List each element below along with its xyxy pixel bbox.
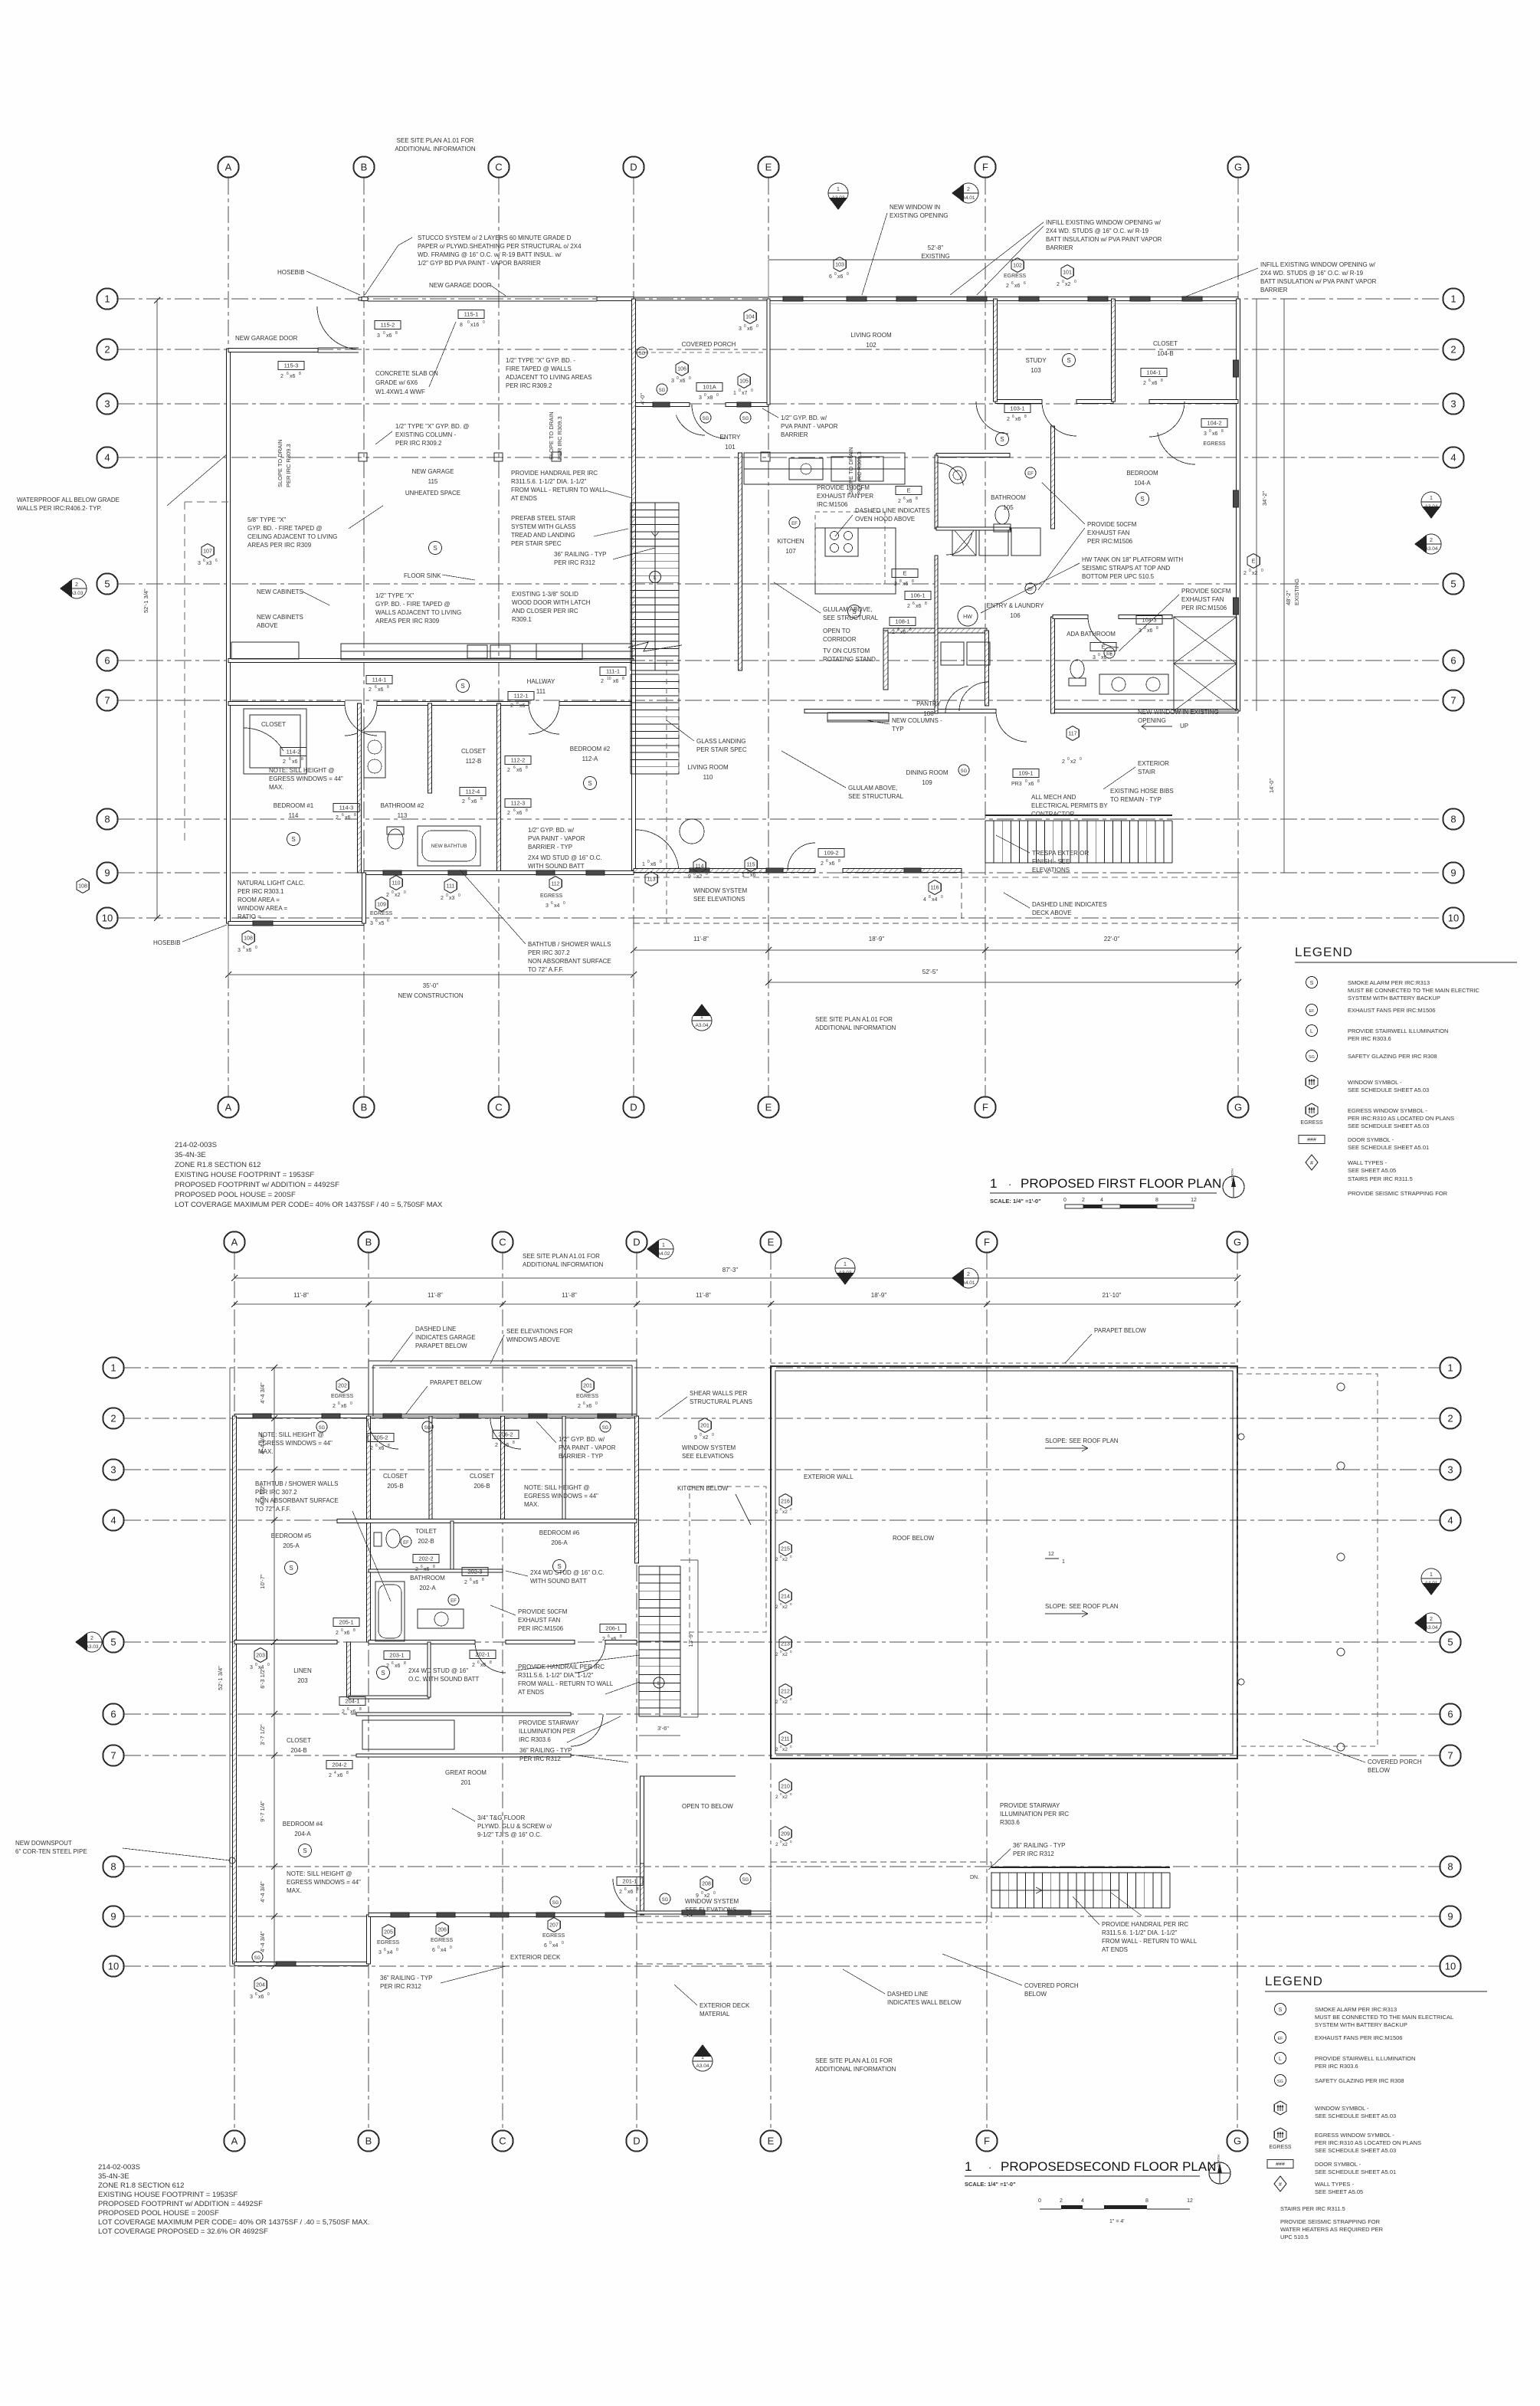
svg-text:35-4N-3E: 35-4N-3E bbox=[98, 2172, 129, 2181]
svg-text:A: A bbox=[231, 2136, 238, 2147]
FF boxed tags interior bbox=[366, 676, 392, 684]
svg-text:10: 10 bbox=[1445, 1961, 1456, 1972]
svg-text:EF: EF bbox=[1027, 472, 1034, 477]
svg-text:6: 6 bbox=[903, 497, 906, 501]
svg-text:LINEN: LINEN bbox=[293, 1667, 312, 1674]
svg-text:MAX.: MAX. bbox=[269, 784, 284, 791]
svg-text:SEE SCHEDULE SHEET A5.03: SEE SCHEDULE SHEET A5.03 bbox=[1315, 2113, 1396, 2119]
svg-text:1: 1 bbox=[1450, 293, 1456, 305]
svg-text:E: E bbox=[765, 1102, 772, 1113]
svg-text:ADJACENT TO LIVING AREAS: ADJACENT TO LIVING AREAS bbox=[506, 374, 591, 381]
svg-text:EGRESS: EGRESS bbox=[377, 1940, 400, 1945]
svg-text:4'-4 3/4": 4'-4 3/4" bbox=[259, 1382, 266, 1404]
svg-text:0: 0 bbox=[712, 1433, 714, 1437]
svg-text:PER STAIR SPEC: PER STAIR SPEC bbox=[696, 746, 747, 753]
svg-text:8: 8 bbox=[526, 808, 528, 813]
svg-text:S: S bbox=[381, 1670, 385, 1677]
svg-text:1: 1 bbox=[965, 2159, 972, 2174]
svg-text:x6: x6 bbox=[341, 1404, 347, 1409]
svg-text:INDICATES WALL BELOW: INDICATES WALL BELOW bbox=[887, 1999, 962, 2006]
svg-text:112: 112 bbox=[551, 882, 559, 887]
svg-text:0: 0 bbox=[941, 895, 943, 900]
svg-text:EXISTING 1-3/8" SOLID: EXISTING 1-3/8" SOLID bbox=[512, 591, 578, 598]
svg-text:2X4 WD. STUDS @ 16" O.C.: 2X4 WD. STUDS @ 16" O.C. w/ R-19 bbox=[1260, 270, 1364, 277]
svg-text:3: 3 bbox=[699, 395, 702, 401]
svg-text:6: 6 bbox=[1148, 379, 1151, 383]
svg-text:6: 6 bbox=[1450, 655, 1456, 667]
FF bedroom104A west wall bbox=[1051, 426, 1055, 529]
svg-text:214-02-003S: 214-02-003S bbox=[98, 2163, 140, 2172]
svg-text:6: 6 bbox=[215, 559, 218, 563]
svg-text:EGRESS: EGRESS bbox=[370, 911, 393, 916]
SF bottom wall bedroom4 bbox=[234, 1962, 369, 1966]
FF markers right bbox=[1421, 492, 1441, 512]
svg-text:2: 2 bbox=[967, 187, 970, 192]
svg-text:2: 2 bbox=[333, 1404, 336, 1409]
svg-text:x6: x6 bbox=[516, 811, 523, 816]
svg-text:3: 3 bbox=[1447, 1464, 1453, 1476]
svg-text:8: 8 bbox=[387, 685, 389, 690]
svg-text:PVA PAINT - VAPOR: PVA PAINT - VAPOR bbox=[528, 835, 585, 842]
FF E hex right bbox=[1247, 554, 1260, 569]
FF A3.04 triangle marker bbox=[692, 1011, 712, 1031]
SF north arrow bbox=[1209, 2162, 1230, 2184]
svg-text:SLOPE: SEE ROOF PLAN: SLOPE: SEE ROOF PLAN bbox=[1045, 1437, 1119, 1444]
svg-text:0: 0 bbox=[759, 870, 762, 875]
svg-text:INFILL EXISTING WINDOW OPEN: INFILL EXISTING WINDOW OPENING w/ bbox=[1260, 261, 1376, 268]
svg-text:ADDITIONAL INFORMATION: ADDITIONAL INFORMATION bbox=[815, 2066, 896, 2073]
svg-text:2X4 WD STUD @ 16" O.C.: 2X4 WD STUD @ 16" O.C. bbox=[530, 1569, 605, 1576]
svg-text:B: B bbox=[365, 2136, 372, 2147]
svg-text:202-1: 202-1 bbox=[475, 1651, 490, 1658]
svg-text:2: 2 bbox=[283, 759, 286, 765]
svg-text:206-B: 206-B bbox=[473, 1483, 490, 1490]
svg-text:8: 8 bbox=[929, 895, 931, 900]
FF interior stair bbox=[631, 502, 679, 503]
svg-text:BATHROOM #2: BATHROOM #2 bbox=[381, 802, 424, 809]
svg-text:11'-8": 11'-8" bbox=[562, 1292, 577, 1299]
svg-text:6: 6 bbox=[913, 601, 915, 606]
FF egress tags bottom bbox=[375, 897, 388, 912]
svg-text:4: 4 bbox=[104, 452, 110, 464]
svg-text:LOT COVERAGE MAXIMUM PER CODE=: LOT COVERAGE MAXIMUM PER CODE= 40% OR 14… bbox=[98, 2218, 370, 2227]
svg-text:EXISTING HOSE BIBS: EXISTING HOSE BIBS bbox=[1110, 788, 1174, 795]
svg-text:STAIRS PER IRC R311.5: STAIRS PER IRC R311.5 bbox=[1280, 2205, 1345, 2212]
svg-text:BARRIER - TYP: BARRIER - TYP bbox=[528, 844, 572, 851]
svg-text:SEE SCHEDULE SHEET A5.03: SEE SCHEDULE SHEET A5.03 bbox=[1315, 2147, 1396, 2154]
svg-text:0: 0 bbox=[267, 1663, 270, 1667]
svg-text:2: 2 bbox=[386, 1664, 389, 1669]
svg-text:10: 10 bbox=[1448, 913, 1459, 924]
svg-text:PER IRC R312: PER IRC R312 bbox=[380, 1983, 421, 1990]
svg-text:2: 2 bbox=[1062, 759, 1065, 765]
svg-text:0: 0 bbox=[1080, 757, 1082, 762]
svg-text:SG: SG bbox=[742, 417, 749, 421]
svg-text:9-1/2" TJI'S @ 16" O.C.: 9-1/2" TJI'S @ 16" O.C. bbox=[477, 1831, 542, 1838]
svg-text:TOILET: TOILET bbox=[415, 1528, 437, 1535]
svg-text:109-2: 109-2 bbox=[824, 850, 838, 857]
svg-text:PLYWD. GLU & SCREW o/: PLYWD. GLU & SCREW o/ bbox=[477, 1823, 552, 1830]
svg-text:x2: x2 bbox=[782, 1509, 788, 1515]
svg-text:PANTRY: PANTRY bbox=[916, 700, 941, 707]
svg-text:2: 2 bbox=[898, 499, 901, 504]
svg-text:SEE SHEET A5.05: SEE SHEET A5.05 bbox=[1315, 2188, 1363, 2195]
svg-text:EF: EF bbox=[791, 522, 798, 526]
svg-text:4'-0": 4'-0" bbox=[639, 393, 646, 405]
svg-text:WINDOW SYMBOL -: WINDOW SYMBOL - bbox=[1315, 2105, 1369, 2112]
SF kitchen below dashed bbox=[690, 1487, 766, 1632]
svg-text:x2: x2 bbox=[782, 1700, 788, 1705]
svg-text:3: 3 bbox=[238, 948, 241, 953]
svg-text:SEE SCHEDULE SHEET A5.03: SEE SCHEDULE SHEET A5.03 bbox=[1348, 1087, 1429, 1093]
svg-text:9: 9 bbox=[1450, 867, 1456, 879]
svg-text:BEDROOM #6: BEDROOM #6 bbox=[539, 1529, 580, 1536]
svg-text:6: 6 bbox=[375, 919, 378, 923]
svg-text:FROM WALL - RETURN TO WALL: FROM WALL - RETURN TO WALL bbox=[511, 487, 607, 493]
svg-text:2: 2 bbox=[507, 811, 510, 816]
svg-text:WALLS PER IRC:R406.2- TYP.: WALLS PER IRC:R406.2- TYP. bbox=[17, 505, 102, 512]
FF north arrow bbox=[1223, 1176, 1244, 1198]
svg-text:2: 2 bbox=[462, 799, 465, 805]
svg-text:9: 9 bbox=[688, 874, 691, 880]
svg-text:FROM WALL - RETURN TO WAL: FROM WALL - RETURN TO WALL bbox=[1102, 1938, 1198, 1945]
svg-text:TO 72" A.F.F.: TO 72" A.F.F. bbox=[528, 966, 564, 973]
svg-text:2: 2 bbox=[578, 1404, 581, 1409]
svg-text:BEDROOM #4: BEDROOM #4 bbox=[283, 1821, 323, 1827]
svg-text:6: 6 bbox=[421, 1565, 423, 1569]
svg-text:E: E bbox=[768, 2136, 775, 2147]
svg-text:3: 3 bbox=[378, 1950, 382, 1955]
svg-text:GYP. BD. - FIRE TAPED @: GYP. BD. - FIRE TAPED @ bbox=[375, 601, 450, 608]
svg-text:115-3: 115-3 bbox=[284, 362, 299, 369]
svg-text:12: 12 bbox=[1191, 1198, 1197, 1203]
svg-text:PROPOSED FOOTPRINT w/ ADDITION: PROPOSED FOOTPRINT w/ ADDITION = 4492SF bbox=[175, 1181, 339, 1189]
svg-text:x6: x6 bbox=[906, 499, 913, 504]
svg-text:CLOSET: CLOSET bbox=[1153, 340, 1178, 347]
FF cabinet counters bbox=[231, 642, 299, 659]
svg-text:TREAD AND LANDING: TREAD AND LANDING bbox=[511, 532, 575, 539]
svg-text:ADDITIONAL INFORMATION: ADDITIONAL INFORMATION bbox=[395, 146, 476, 152]
SF wall at row9 D-E window bbox=[637, 1911, 771, 1914]
svg-text:CEILING ADJACENT TO LIVING: CEILING ADJACENT TO LIVING bbox=[247, 533, 337, 540]
svg-text:SEE SCHEDULE SHEET A5.01: SEE SCHEDULE SHEET A5.01 bbox=[1348, 1144, 1429, 1151]
svg-text:2: 2 bbox=[894, 582, 897, 587]
svg-text:UPC 510.5: UPC 510.5 bbox=[1280, 2234, 1309, 2240]
svg-text:AREAS PER IRC R309: AREAS PER IRC R309 bbox=[375, 618, 440, 624]
svg-text:0: 0 bbox=[693, 872, 696, 877]
FF stair lower flight dashes bbox=[631, 674, 679, 675]
svg-text:2: 2 bbox=[507, 768, 510, 773]
svg-text:RATIO =: RATIO = bbox=[238, 913, 261, 920]
svg-text:x6: x6 bbox=[480, 1663, 487, 1668]
svg-text:EF: EF bbox=[451, 1599, 457, 1604]
svg-text:6: 6 bbox=[477, 1660, 480, 1665]
svg-text:0: 0 bbox=[341, 1628, 343, 1633]
FF study west wall bbox=[994, 299, 998, 402]
svg-text:x4: x4 bbox=[932, 897, 938, 903]
svg-text:AT ENDS: AT ENDS bbox=[518, 1689, 544, 1696]
svg-text:SEE SHEET A5.05: SEE SHEET A5.05 bbox=[1348, 1167, 1396, 1174]
svg-text:O.C. WITH SOUND BATT: O.C. WITH SOUND BATT bbox=[408, 1676, 479, 1683]
svg-text:EGRESS WINDOW SYMBOL -: EGRESS WINDOW SYMBOL - bbox=[1315, 2132, 1394, 2139]
svg-text:0: 0 bbox=[1074, 280, 1076, 284]
svg-text:8: 8 bbox=[1155, 1198, 1158, 1203]
svg-text:8: 8 bbox=[1161, 379, 1163, 383]
svg-text:8: 8 bbox=[925, 601, 927, 606]
svg-text:206: 206 bbox=[437, 1928, 447, 1933]
svg-text:52'-8": 52'-8" bbox=[928, 244, 944, 251]
svg-text:LOT COVERAGE MAXIMUM PER CODE=: LOT COVERAGE MAXIMUM PER CODE= 40% OR 14… bbox=[175, 1201, 443, 1209]
svg-text:2: 2 bbox=[329, 1773, 332, 1778]
svg-text:E: E bbox=[765, 162, 772, 173]
svg-text:6" COR-TEN STEEL PIPE: 6" COR-TEN STEEL PIPE bbox=[15, 1848, 87, 1855]
svg-text:x4: x4 bbox=[387, 1950, 393, 1955]
svg-text:TO REMAIN - TYP: TO REMAIN - TYP bbox=[1110, 796, 1162, 803]
svg-text:205: 205 bbox=[384, 1930, 393, 1936]
svg-text:CONCRETE SLAB ON: CONCRETE SLAB ON bbox=[375, 370, 438, 377]
svg-text:6: 6 bbox=[826, 859, 828, 864]
svg-text:EXHAUST FAN: EXHAUST FAN bbox=[518, 1617, 561, 1624]
svg-text:INFILL EXISTING WINDOW OPEN: INFILL EXISTING WINDOW OPENING w/ bbox=[1046, 219, 1162, 226]
svg-text:D: D bbox=[633, 1237, 640, 1248]
svg-text:G: G bbox=[1234, 2136, 1241, 2147]
SF top wall A-D bbox=[234, 1414, 637, 1418]
svg-text:EGRESS: EGRESS bbox=[576, 1394, 599, 1399]
SF markers top bbox=[654, 1239, 673, 1259]
FF 106-1 108-1 bbox=[905, 592, 931, 600]
svg-text:87'-3": 87'-3" bbox=[722, 1267, 739, 1273]
svg-text:x6: x6 bbox=[1015, 417, 1021, 422]
svg-text:EGRESS: EGRESS bbox=[1004, 274, 1027, 279]
svg-text:ELECTRICAL PERMITS BY: ELECTRICAL PERMITS BY bbox=[1031, 802, 1108, 809]
svg-text:8: 8 bbox=[104, 814, 110, 825]
svg-text:ENTRY: ENTRY bbox=[720, 434, 742, 441]
svg-text:1: 1 bbox=[110, 1362, 116, 1374]
svg-text:211: 211 bbox=[781, 1737, 789, 1742]
svg-text:2: 2 bbox=[472, 1663, 475, 1668]
svg-text:EGRESS: EGRESS bbox=[540, 893, 563, 899]
svg-text:8: 8 bbox=[395, 331, 398, 336]
svg-text:EF: EF bbox=[1309, 1009, 1315, 1014]
svg-text:COVERED PORCH: COVERED PORCH bbox=[1024, 1982, 1079, 1989]
svg-text:SYSTEM WITH BATTERY BACKUP: SYSTEM WITH BATTERY BACKUP bbox=[1315, 2021, 1407, 2028]
svg-text:116: 116 bbox=[930, 886, 939, 891]
svg-text:x6: x6 bbox=[900, 630, 906, 635]
svg-text:8: 8 bbox=[433, 1565, 435, 1569]
svg-text:203-1: 203-1 bbox=[389, 1652, 404, 1659]
svg-text:48'-2": 48'-2" bbox=[1285, 591, 1292, 605]
svg-text:8: 8 bbox=[526, 765, 528, 770]
svg-text:SYSTEM WITH BATTERY BACKUP: SYSTEM WITH BATTERY BACKUP bbox=[1348, 995, 1440, 1001]
svg-text:0: 0 bbox=[834, 272, 837, 277]
svg-text:x4: x4 bbox=[554, 903, 560, 909]
svg-text:112-1: 112-1 bbox=[514, 693, 529, 700]
svg-text:1/2" GYP BD PVA PAINT - VAPOR: 1/2" GYP BD PVA PAINT - VAPOR BARRIER bbox=[418, 260, 541, 267]
SF 205-2 206-2 bbox=[368, 1434, 394, 1442]
svg-text:SEE SITE PLAN A1.01 FOR: SEE SITE PLAN A1.01 FOR bbox=[815, 1016, 893, 1023]
svg-text:x6: x6 bbox=[1014, 284, 1021, 289]
svg-text:108: 108 bbox=[244, 936, 253, 942]
svg-text:S: S bbox=[433, 545, 437, 552]
svg-text:BEDROOM: BEDROOM bbox=[1126, 470, 1158, 477]
svg-text:SEE ELEVATIONS: SEE ELEVATIONS bbox=[682, 1453, 733, 1460]
SF right wall D bbox=[635, 1416, 639, 1563]
svg-text:203: 203 bbox=[256, 1654, 265, 1659]
svg-text:7: 7 bbox=[104, 695, 110, 706]
svg-text:ADDITIONAL INFORMATION: ADDITIONAL INFORMATION bbox=[815, 1024, 896, 1031]
svg-text:#: # bbox=[1310, 1161, 1313, 1166]
svg-text:x6: x6 bbox=[750, 873, 756, 878]
svg-text:6: 6 bbox=[384, 1948, 386, 1952]
svg-text:213: 213 bbox=[781, 1642, 790, 1647]
FF stair break line bbox=[628, 642, 682, 651]
FF extra door arcs right wing bbox=[976, 402, 1008, 434]
svg-text:EGRESS: EGRESS bbox=[1203, 441, 1226, 447]
svg-text:113: 113 bbox=[398, 812, 408, 819]
svg-text:NEW DOWNSPOUT: NEW DOWNSPOUT bbox=[15, 1840, 72, 1847]
svg-text:1: 1 bbox=[742, 873, 745, 878]
FF garage top-left jog wall bbox=[228, 349, 318, 352]
svg-text:ENTRY & LAUNDRY: ENTRY & LAUNDRY bbox=[987, 602, 1044, 609]
svg-text:S: S bbox=[291, 836, 295, 843]
FF scale bar bbox=[1065, 1205, 1083, 1208]
svg-text:A4.02: A4.02 bbox=[657, 1251, 670, 1257]
svg-text:SYSTEM WITH GLASS: SYSTEM WITH GLASS bbox=[511, 523, 575, 530]
svg-text:104-B: 104-B bbox=[1157, 350, 1173, 357]
svg-text:BEDROOM #1: BEDROOM #1 bbox=[274, 802, 314, 809]
svg-text:2: 2 bbox=[495, 1443, 498, 1448]
svg-text:x4: x4 bbox=[552, 1943, 559, 1949]
svg-text:1/2" TYPE "X" GYP. BD. @: 1/2" TYPE "X" GYP. BD. @ bbox=[395, 423, 469, 430]
svg-text:x8: x8 bbox=[707, 395, 713, 401]
svg-text:SEE ELEVATIONS: SEE ELEVATIONS bbox=[693, 896, 745, 903]
svg-text:112-2: 112-2 bbox=[511, 757, 526, 764]
svg-text:106: 106 bbox=[677, 367, 686, 372]
svg-text:36" RAILING - TYP: 36" RAILING - TYP bbox=[554, 551, 607, 558]
FF bottom-left wall row10 bbox=[228, 922, 364, 926]
svg-text:8: 8 bbox=[513, 1441, 515, 1445]
svg-text:8: 8 bbox=[301, 757, 303, 762]
svg-text:NOTE: SILL HEIGHT @: NOTE: SILL HEIGHT @ bbox=[258, 1431, 323, 1438]
svg-text:INDICATES GARAGE: INDICATES GARAGE bbox=[415, 1334, 476, 1341]
svg-text:x6: x6 bbox=[586, 1404, 592, 1409]
svg-text:0: 0 bbox=[458, 893, 460, 898]
FF existing top wall E-G with infill windows bbox=[768, 297, 1238, 301]
svg-text:36" RAILING - TYP: 36" RAILING - TYP bbox=[519, 1747, 572, 1754]
svg-text:6: 6 bbox=[544, 1943, 547, 1949]
svg-text:6: 6 bbox=[287, 372, 289, 376]
svg-text:R309.1: R309.1 bbox=[512, 616, 532, 623]
svg-text:TRESPA EXTERIOR: TRESPA EXTERIOR bbox=[1032, 850, 1089, 857]
svg-text:14'-0": 14'-0" bbox=[1268, 779, 1275, 793]
svg-text:109-1: 109-1 bbox=[1018, 770, 1033, 777]
svg-text:3: 3 bbox=[377, 333, 380, 339]
SF A3.04 marker bottom bbox=[693, 2051, 713, 2071]
svg-text:EGRESS: EGRESS bbox=[431, 1938, 454, 1943]
svg-text:3'-7 1/2": 3'-7 1/2" bbox=[259, 1724, 266, 1745]
SF stair rail line bbox=[991, 1890, 1119, 1891]
svg-text:PROVIDE STAIRWAY: PROVIDE STAIRWAY bbox=[519, 1719, 579, 1726]
svg-text:2: 2 bbox=[601, 679, 604, 684]
svg-text:0: 0 bbox=[1067, 757, 1070, 762]
svg-text:A3.03: A3.03 bbox=[70, 591, 84, 596]
svg-text:STRUCTURAL PLANS: STRUCTURAL PLANS bbox=[690, 1398, 752, 1405]
FF ADA shower hatch bbox=[1174, 617, 1237, 664]
svg-text:206-1: 206-1 bbox=[605, 1625, 620, 1632]
svg-text:0: 0 bbox=[1063, 1198, 1067, 1203]
svg-text:SLOPE TO DRAIN: SLOPE TO DRAIN bbox=[548, 411, 555, 460]
svg-text:EXHAUST FAN PER: EXHAUST FAN PER bbox=[817, 493, 873, 500]
svg-text:BATHROOM: BATHROOM bbox=[991, 494, 1026, 501]
svg-text:WALL TYPES -: WALL TYPES - bbox=[1348, 1159, 1387, 1166]
svg-text:1/2" GYP. BD. w/: 1/2" GYP. BD. w/ bbox=[528, 827, 575, 834]
svg-text:0: 0 bbox=[267, 1992, 270, 1997]
svg-text:3: 3 bbox=[1204, 431, 1207, 437]
svg-text:6: 6 bbox=[432, 1948, 435, 1953]
svg-text:2: 2 bbox=[619, 1890, 622, 1895]
svg-text:STUDY: STUDY bbox=[1025, 357, 1047, 364]
svg-text:x6: x6 bbox=[345, 815, 351, 821]
svg-text:CORRIDOR: CORRIDOR bbox=[823, 636, 857, 643]
svg-text:111-1: 111-1 bbox=[606, 668, 620, 675]
svg-text:C: C bbox=[499, 2136, 506, 2147]
svg-text:x6: x6 bbox=[1152, 381, 1158, 386]
svg-text:6: 6 bbox=[347, 1707, 349, 1712]
svg-text:NOTE: SILL HEIGHT @: NOTE: SILL HEIGHT @ bbox=[524, 1484, 589, 1491]
svg-text:PARAPET BELOW: PARAPET BELOW bbox=[430, 1379, 482, 1386]
svg-text:x6: x6 bbox=[424, 1567, 430, 1572]
svg-text:SG: SG bbox=[602, 1426, 609, 1431]
svg-text:x6: x6 bbox=[680, 379, 686, 384]
svg-text:EXISTING: EXISTING bbox=[1293, 579, 1300, 605]
svg-text:205-B: 205-B bbox=[387, 1483, 403, 1490]
svg-text:1: 1 bbox=[662, 1243, 665, 1248]
svg-text:S: S bbox=[460, 683, 464, 690]
FF bathroom105 fixtures bbox=[949, 467, 966, 483]
svg-text:x3: x3 bbox=[449, 896, 455, 901]
svg-text:OPEN TO: OPEN TO bbox=[823, 628, 850, 634]
svg-text:52'-5": 52'-5" bbox=[922, 969, 939, 975]
svg-text:HOSEBIB: HOSEBIB bbox=[153, 939, 181, 946]
svg-text:212: 212 bbox=[781, 1690, 790, 1695]
svg-text:CONTRACTOR: CONTRACTOR bbox=[1031, 811, 1075, 818]
svg-text:x6: x6 bbox=[650, 862, 657, 867]
svg-text:CLOSET: CLOSET bbox=[261, 721, 286, 728]
svg-text:8: 8 bbox=[353, 1628, 356, 1633]
svg-text:EF: EF bbox=[1106, 652, 1112, 657]
svg-text:1: 1 bbox=[733, 391, 736, 396]
svg-text:x6: x6 bbox=[627, 1890, 634, 1895]
svg-text:GYP. BD. - FIRE TAPED @: GYP. BD. - FIRE TAPED @ bbox=[247, 525, 322, 532]
FF hallway south wall row7 bbox=[228, 702, 345, 706]
svg-text:x2: x2 bbox=[395, 893, 401, 898]
svg-text:SHEAR WALLS PER: SHEAR WALLS PER bbox=[690, 1390, 748, 1397]
svg-text:PR3: PR3 bbox=[1011, 782, 1022, 787]
svg-text:2: 2 bbox=[775, 1605, 778, 1610]
FF marker left row5 bbox=[67, 579, 87, 598]
svg-text:9'-7 1/4": 9'-7 1/4" bbox=[259, 1801, 266, 1822]
FF interior verticals bedrooms bbox=[358, 703, 362, 873]
svg-text:PER IRC:R310 AS LOCATED ON: PER IRC:R310 AS LOCATED ON PLANS bbox=[1348, 1115, 1454, 1122]
svg-text:S: S bbox=[1279, 2008, 1283, 2013]
FF right wing bottom wall bbox=[1053, 710, 1238, 713]
svg-text:1" = 4': 1" = 4' bbox=[1109, 2219, 1125, 2224]
svg-text:2: 2 bbox=[342, 1709, 345, 1715]
svg-text:AND CLOSER PER IRC: AND CLOSER PER IRC bbox=[512, 608, 578, 615]
FF south wall bedrooms row9 with windows bbox=[364, 871, 634, 875]
svg-text:12: 12 bbox=[1187, 2198, 1193, 2204]
svg-text:WD. FRAMING @ 16" O.C. w/ R-19: WD. FRAMING @ 16" O.C. w/ R-19 BATT INSU… bbox=[418, 251, 562, 258]
